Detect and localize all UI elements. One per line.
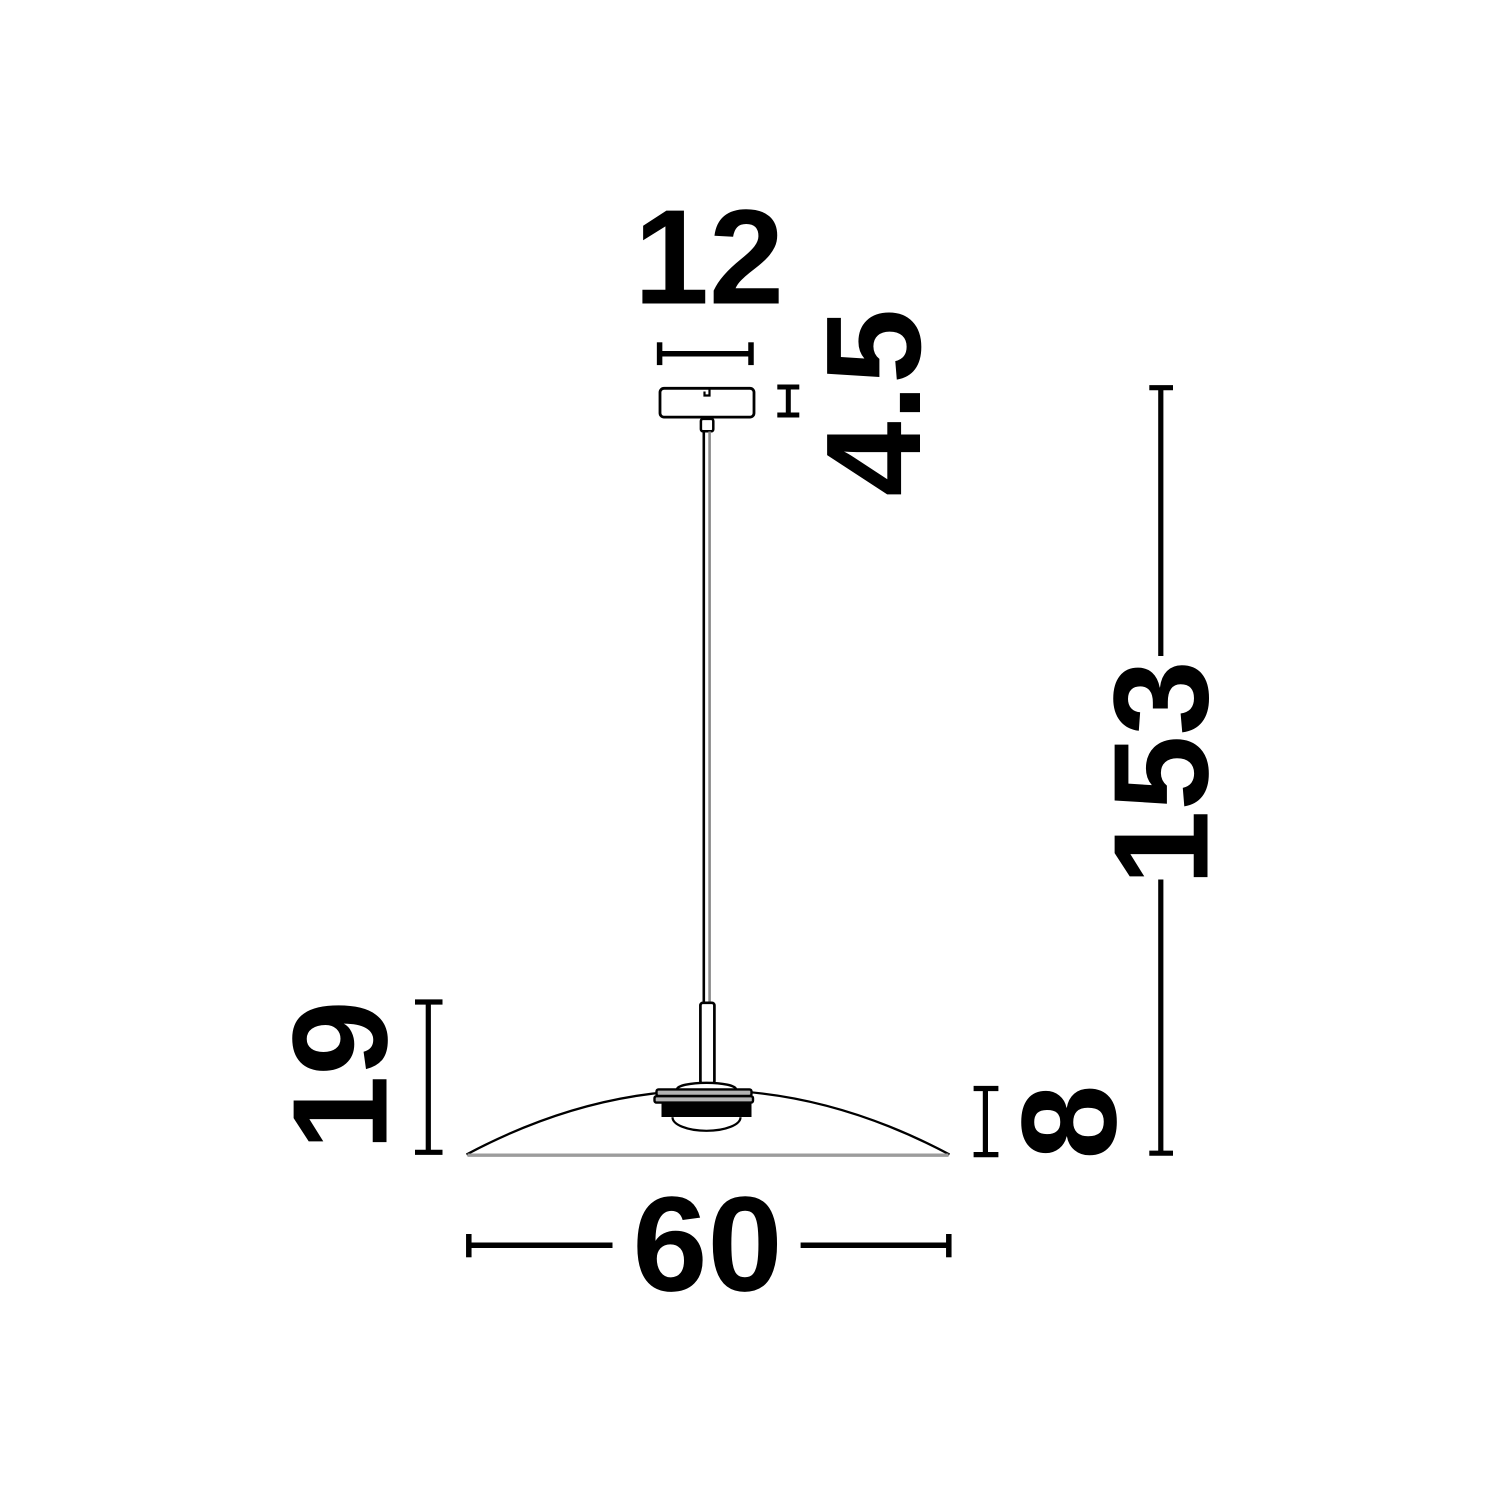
shade bottom rim (468, 1153, 949, 1156)
svg-text:153: 153 (1086, 660, 1237, 885)
dimension tick 4.5 (777, 387, 799, 415)
LED ring upper (657, 1089, 752, 1096)
dimension line 153 (1149, 388, 1173, 1153)
cord (702, 432, 705, 1004)
shade profile arc (467, 1090, 950, 1154)
cord grip (701, 419, 713, 431)
svg-text:4.5: 4.5 (798, 309, 949, 497)
canopy notch (705, 388, 710, 396)
dimension line 60 (469, 1234, 949, 1257)
svg-text:19: 19 (265, 1000, 416, 1150)
diffuser arc (673, 1117, 741, 1131)
dimension line 8 (974, 1089, 999, 1155)
LED ring lower (655, 1096, 754, 1102)
svg-text:60: 60 (632, 1169, 782, 1320)
dimension line 19 (415, 1002, 443, 1152)
suspension rod (700, 1003, 714, 1084)
LED module dome (677, 1083, 736, 1090)
LED body (662, 1103, 752, 1117)
svg-text:12: 12 (634, 182, 784, 333)
svg-text:8: 8 (994, 1084, 1145, 1159)
dimension line 12 (660, 342, 751, 365)
canopy (660, 388, 754, 417)
